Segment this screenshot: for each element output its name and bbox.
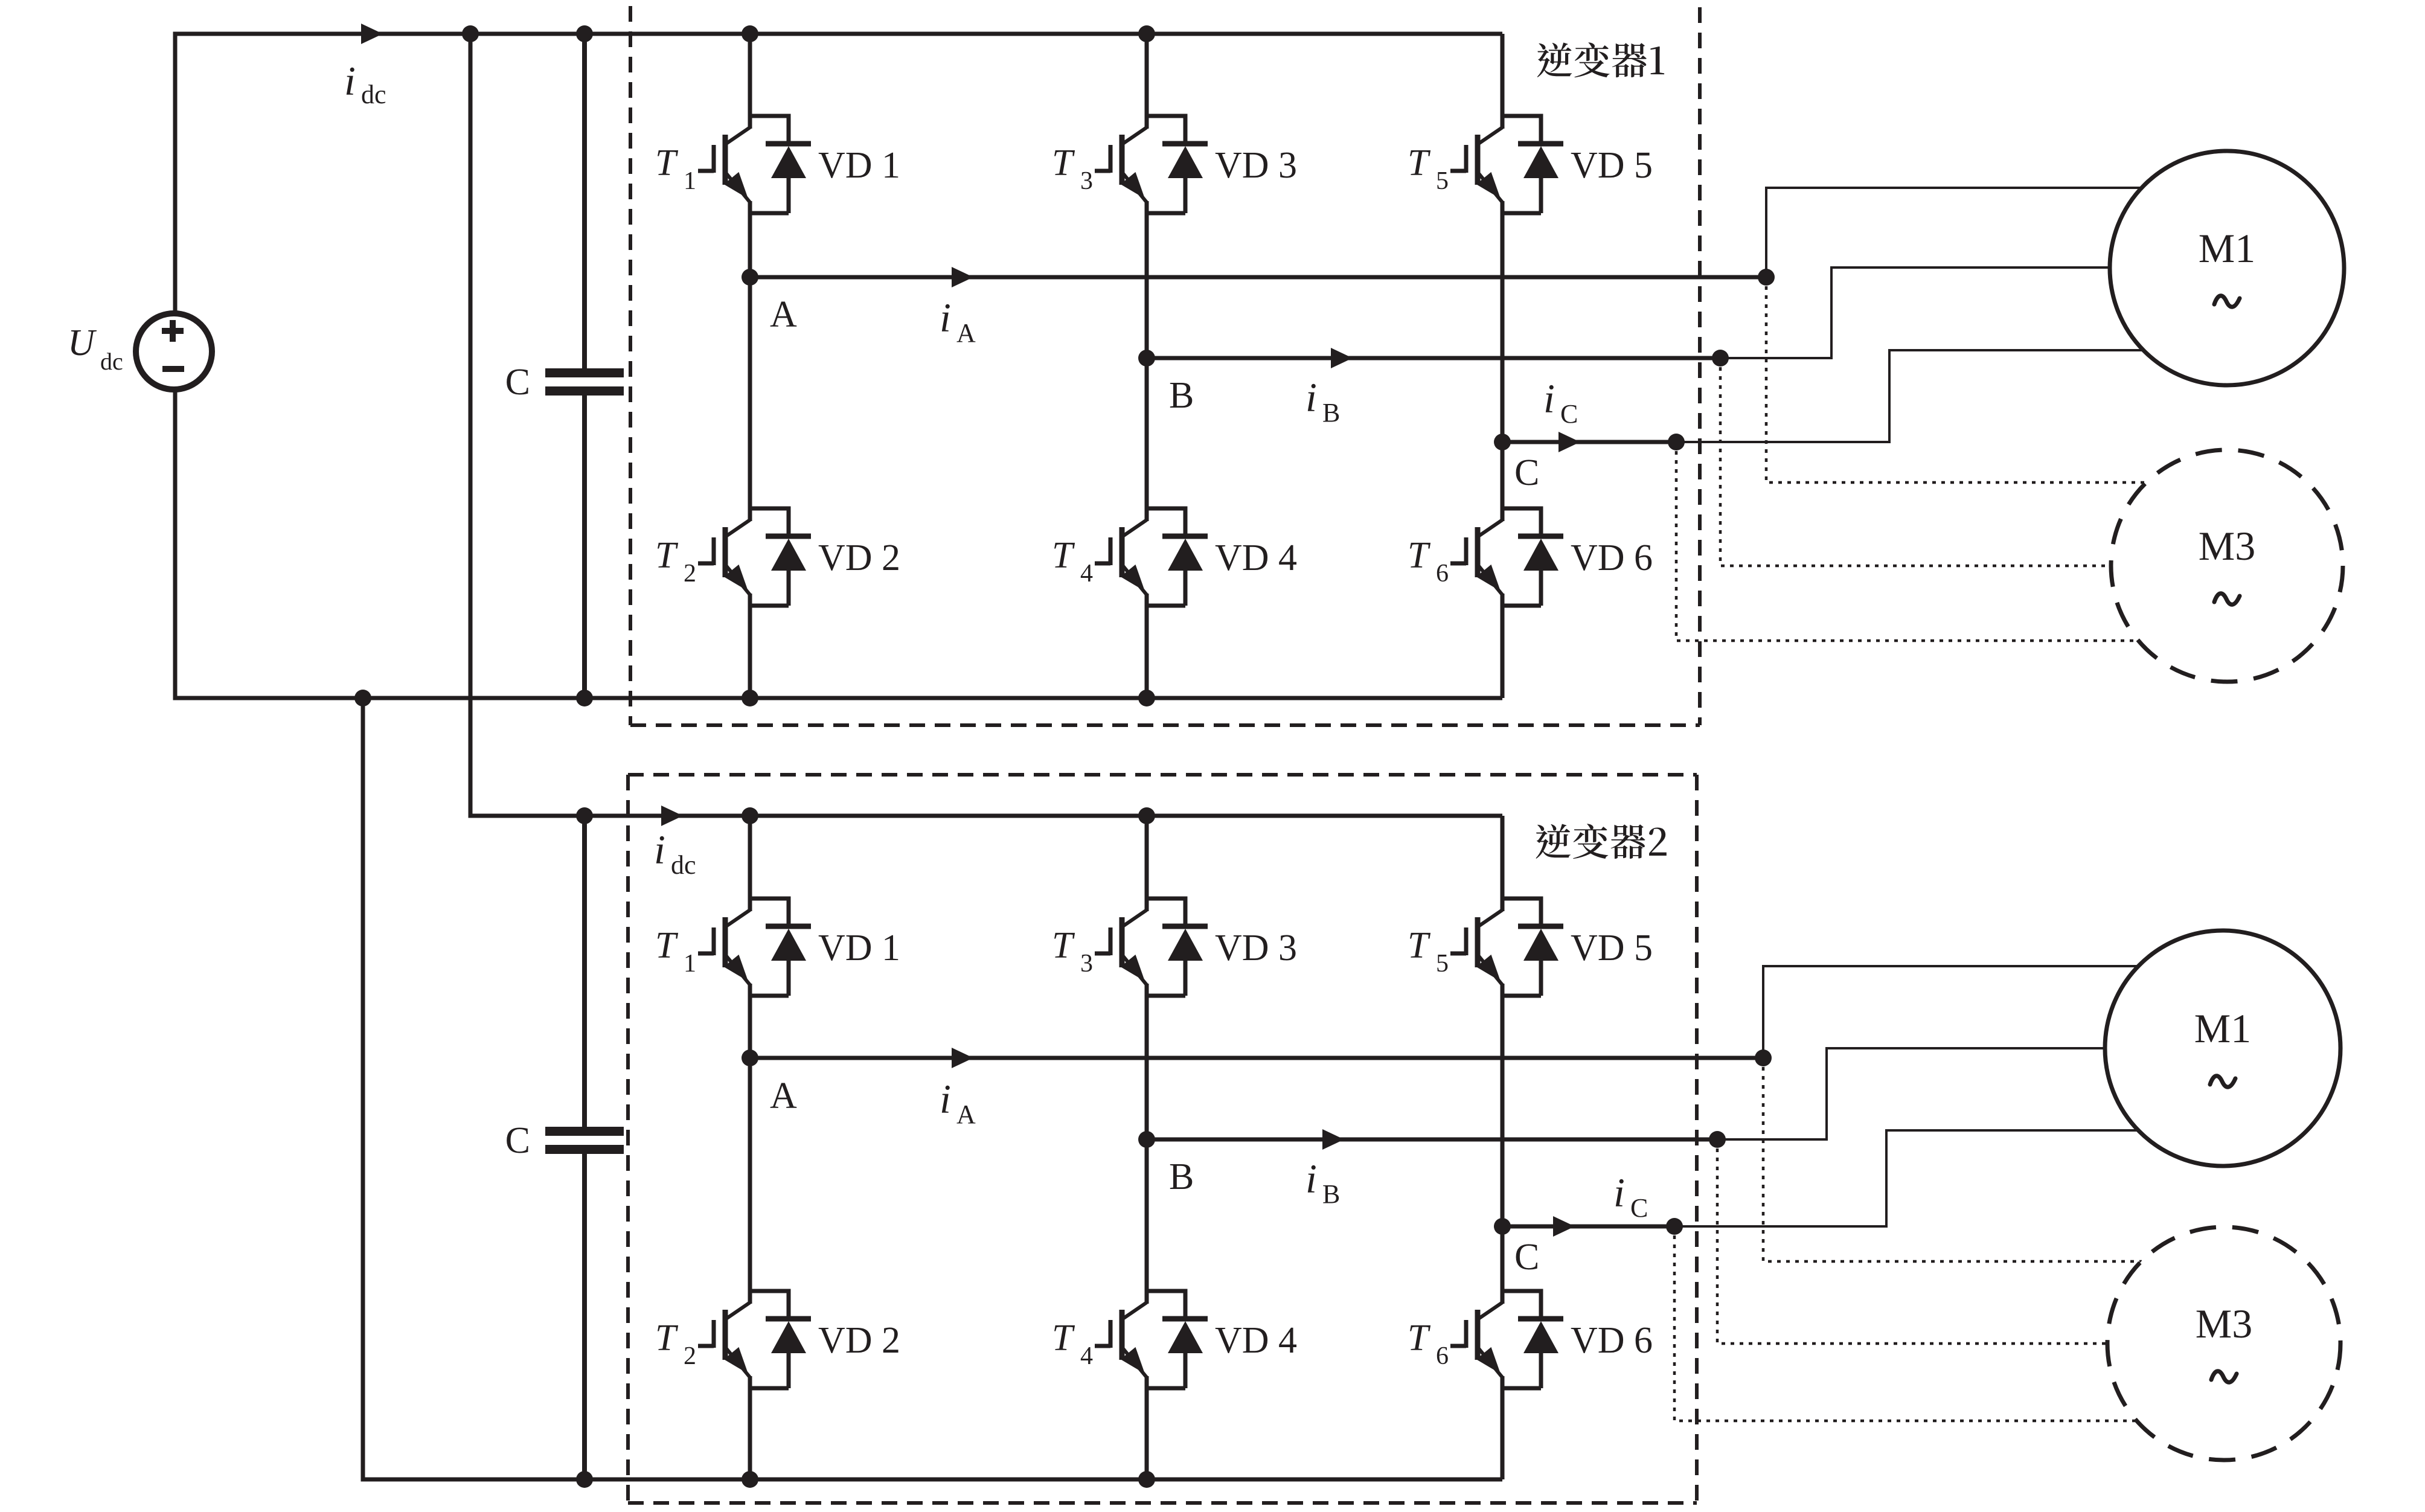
svg-text:4: 4 (1080, 560, 1093, 588)
svg-text:4: 4 (1080, 1342, 1093, 1370)
wire: leg A inverter 2 mid segment (upper emitter to phase node to lower collector) (748, 984, 752, 1304)
transistor T6 label (1408, 1318, 1449, 1370)
node A inverter 2 (742, 1049, 758, 1066)
junction top bus / leg B (1138, 25, 1155, 42)
svg-text:T: T (1052, 143, 1075, 184)
junction rail 1 / leg A (742, 690, 758, 706)
wire: leg A inverter 1 collector segment (748, 34, 752, 129)
transistor T4 (inverter 2) (1095, 1302, 1147, 1377)
wire: phase C output (inverter 2) (1502, 1225, 1674, 1229)
wire: leg A inverter 2 bottom segment (748, 1376, 752, 1479)
transistor T4 (inverter 1) (1095, 520, 1147, 595)
svg-text:6: 6 (1436, 560, 1449, 588)
svg-text:T: T (1408, 1318, 1431, 1359)
diode VD4 (inverter 1) (1147, 508, 1208, 606)
junction rail 2 / leg B (1138, 1471, 1155, 1488)
svg-text:2: 2 (684, 560, 696, 588)
wire: leg A inverter 2 collector segment (748, 816, 752, 911)
svg-text:i: i (1305, 1156, 1317, 1202)
svg-text:VD 4: VD 4 (1215, 537, 1297, 578)
wire: leg C inverter 2 bottom segment (1501, 1376, 1505, 1479)
svg-text:VD 6: VD 6 (1571, 537, 1653, 578)
svg-text:VD 4: VD 4 (1215, 1320, 1297, 1361)
transistor T1 (inverter 1) (698, 127, 750, 202)
arrow i_dc (top bus) (361, 24, 383, 44)
node C tap inverter 1 (1668, 434, 1685, 450)
junction top bus / leg A (742, 25, 758, 42)
wire: dotted link to M3 (phase B inverter 1) (1720, 358, 2111, 566)
svg-text:1: 1 (684, 950, 696, 978)
junction bus 2 / leg A (742, 807, 758, 824)
wire: leg A inverter 1 mid segment (upper emitter to phase node to lower collector) (748, 201, 752, 521)
svg-text:VD 5: VD 5 (1571, 927, 1653, 969)
svg-text:VD 1: VD 1 (818, 145, 900, 186)
arrow i_C (inverter 1) (1558, 432, 1580, 452)
svg-text:i: i (940, 1076, 951, 1122)
wire: feeder to inverter 2 positive bus (470, 34, 1502, 816)
junction rail 1 / capacitor 1 (576, 690, 593, 706)
svg-text:VD 2: VD 2 (818, 1320, 900, 1361)
motor M1 (inverter 1) (2110, 151, 2344, 385)
svg-text:A: A (956, 318, 976, 348)
inverter 1 dashed boundary box (630, 6, 1700, 725)
svg-text:T: T (1052, 535, 1075, 576)
svg-text:T: T (1052, 925, 1075, 966)
svg-text:i: i (344, 58, 356, 104)
i_B label (inverter 1) (1305, 374, 1340, 428)
voltage source U_dc (136, 313, 212, 389)
node A inverter 1 (742, 269, 758, 286)
junction bus 2 / leg B (1138, 807, 1155, 824)
motor M3 (inverter 2) (2107, 1227, 2340, 1460)
i_A label (inverter 2) (940, 1076, 976, 1129)
wire: phase C link to M1 (inverter 1) (1676, 350, 2144, 442)
node A tap inverter 2 (1755, 1049, 1772, 1066)
wire: leg A inverter 1 bottom segment (748, 594, 752, 698)
motor M3 (inverter 1) (2111, 450, 2343, 682)
svg-text:T: T (1408, 143, 1431, 184)
svg-text:B: B (1169, 1156, 1194, 1197)
diode VD1 (inverter 2) (750, 899, 811, 996)
svg-text:T: T (1408, 535, 1431, 576)
transistor T5 label (1408, 143, 1449, 195)
arrow i_B (inverter 1) (1331, 348, 1353, 368)
diode VD2 (inverter 1) (750, 508, 811, 606)
wire: leg B inverter 2 mid segment (upper emitter to phase node to lower collector) (1145, 984, 1149, 1304)
wire: DC source positive lead and top bus (175, 34, 1502, 313)
svg-text:M1: M1 (2199, 225, 2255, 271)
svg-text:M1: M1 (2194, 1005, 2251, 1051)
wire: phase B output (inverter 1) (1147, 356, 1720, 360)
i_B label (inverter 2) (1305, 1156, 1340, 1209)
diode VD5 (inverter 2) (1502, 899, 1563, 996)
wire: phase A link to M1 (inverter 1) (1766, 188, 2142, 277)
svg-text:T: T (655, 925, 679, 966)
svg-text:2: 2 (684, 1342, 696, 1370)
junction top bus / feeder 2 (462, 25, 479, 42)
wire: leg C inverter 2 mid segment (upper emitter to phase node to lower collector) (1501, 984, 1505, 1304)
svg-text:dc: dc (361, 80, 386, 109)
node C inverter 1 (1494, 434, 1511, 450)
diode VD6 (inverter 2) (1502, 1291, 1563, 1388)
inverter 1 label 逆变器1 (1537, 42, 1664, 77)
capacitor C (inverter 2) (545, 816, 624, 1479)
svg-text:VD 3: VD 3 (1215, 927, 1297, 969)
svg-text:1: 1 (684, 167, 696, 195)
junction top bus / capacitor 1 (576, 25, 593, 42)
arrow i_A (inverter 2) (952, 1048, 973, 1068)
diode VD3 (inverter 1) (1147, 116, 1208, 213)
svg-text:U: U (68, 322, 97, 364)
transistor T2 label (655, 1318, 696, 1370)
svg-text:C: C (505, 1120, 530, 1161)
svg-text:B: B (1169, 375, 1194, 416)
wire: DC source negative lead and negative rail (inverter 1) (175, 389, 1502, 698)
svg-text:3: 3 (1080, 950, 1093, 978)
wire: leg C inverter 1 mid segment (upper emitter to phase node to lower collector) (1501, 201, 1505, 521)
i_dc label (inverter 2) (654, 827, 696, 880)
diode VD4 (inverter 2) (1147, 1291, 1208, 1388)
wire: phase C link to M1 (inverter 2) (1674, 1130, 2141, 1226)
transistor T6 (inverter 1) (1450, 520, 1502, 595)
wire: dotted link to M3 (phase A inverter 2) (1763, 1058, 2142, 1261)
transistor T1 (inverter 2) (698, 910, 750, 985)
transistor T2 (inverter 1) (698, 520, 750, 595)
transistor T5 (inverter 1) (1450, 127, 1502, 202)
node B inverter 2 (1138, 1131, 1155, 1148)
wire: dotted link to M3 (phase C inverter 2) (1674, 1226, 2138, 1421)
transistor T5 (inverter 2) (1450, 910, 1502, 985)
svg-text:VD 1: VD 1 (818, 927, 900, 969)
transistor T4 label (1052, 535, 1093, 588)
svg-text:5: 5 (1436, 950, 1449, 978)
node B inverter 1 (1138, 350, 1155, 367)
arrow i_C (inverter 2) (1553, 1216, 1575, 1237)
wire: leg C inverter 2 collector segment (1501, 816, 1505, 911)
wire: dotted link to M3 (phase C inverter 1) (1676, 442, 2138, 641)
wire: leg B inverter 2 bottom segment (1145, 1376, 1149, 1479)
wire: leg B inverter 2 collector segment (1145, 816, 1149, 911)
transistor T2 (inverter 2) (698, 1302, 750, 1377)
transistor T6 label (1408, 535, 1449, 588)
wire: leg C inverter 1 bottom segment (1501, 594, 1505, 698)
diode VD5 (inverter 1) (1502, 116, 1563, 213)
transistor T6 (inverter 2) (1450, 1302, 1502, 1377)
svg-text:A: A (770, 294, 797, 335)
motor M1 (inverter 2) (2105, 931, 2340, 1166)
wire: phase A link to M1 (inverter 2) (1763, 966, 2139, 1058)
svg-text:3: 3 (1080, 167, 1093, 195)
wire: dotted link to M3 (phase B inverter 2) (1717, 1139, 2107, 1344)
inverter 2 label 逆变器2 (1536, 824, 1667, 859)
capacitor C (inverter 1) (545, 34, 624, 698)
arrow i_dc (inverter 2 bus) (661, 806, 683, 826)
transistor T3 label (1052, 925, 1093, 978)
junction rail 1 / feeder neg (354, 690, 371, 706)
transistor T1 label (655, 925, 696, 978)
diode VD6 (inverter 1) (1502, 508, 1563, 606)
svg-text:B: B (1322, 1179, 1340, 1209)
wire: leg B inverter 1 bottom segment (1145, 594, 1149, 698)
svg-text:i: i (654, 827, 665, 873)
i_C label (inverter 1) (1543, 376, 1578, 429)
svg-text:i: i (1613, 1170, 1625, 1216)
svg-text:T: T (655, 535, 679, 576)
svg-text:VD 5: VD 5 (1571, 145, 1653, 186)
svg-text:i: i (940, 295, 951, 341)
svg-text:C: C (505, 362, 530, 403)
svg-text:C: C (1514, 1237, 1539, 1278)
junction bus 2 / capacitor 2 (576, 807, 593, 824)
svg-text:C: C (1560, 399, 1578, 429)
junction rail 1 / leg B (1138, 690, 1155, 706)
wire: dotted link to M3 (phase A inverter 1) (1766, 277, 2146, 482)
svg-text:VD 6: VD 6 (1571, 1320, 1653, 1361)
wire: phase A output (inverter 1) (750, 275, 1766, 280)
transistor T3 (inverter 2) (1095, 910, 1147, 985)
junction rail 2 / capacitor 2 (576, 1471, 593, 1488)
wire: leg C inverter 1 collector segment (1501, 34, 1505, 129)
svg-text:M3: M3 (2196, 1301, 2252, 1347)
svg-text:dc: dc (100, 348, 123, 375)
svg-text:i: i (1305, 374, 1317, 420)
node C inverter 2 (1494, 1218, 1511, 1235)
node C tap inverter 2 (1666, 1218, 1683, 1235)
diode VD2 (inverter 2) (750, 1291, 811, 1388)
transistor T3 label (1052, 143, 1093, 195)
diode VD3 (inverter 2) (1147, 899, 1208, 996)
svg-text:T: T (1408, 925, 1431, 966)
svg-text:i: i (1543, 376, 1555, 421)
svg-text:6: 6 (1436, 1342, 1449, 1370)
svg-text:C: C (1630, 1193, 1648, 1223)
wire: leg B inverter 1 mid segment (upper emitter to phase node to lower collector) (1145, 201, 1149, 521)
U_dc label (68, 322, 123, 375)
transistor T2 label (655, 535, 696, 588)
svg-text:5: 5 (1436, 167, 1449, 195)
svg-text:M3: M3 (2199, 523, 2255, 569)
arrow i_A (inverter 1) (952, 267, 973, 287)
svg-text:VD 3: VD 3 (1215, 145, 1297, 186)
svg-text:T: T (1052, 1318, 1075, 1359)
diode VD1 (inverter 1) (750, 116, 811, 213)
transistor T3 (inverter 1) (1095, 127, 1147, 202)
svg-text:C: C (1514, 452, 1539, 493)
svg-text:T: T (655, 143, 679, 184)
svg-text:dc: dc (671, 850, 696, 880)
transistor T1 label (655, 143, 696, 195)
svg-text:A: A (770, 1075, 797, 1116)
node B tap inverter 1 (1712, 350, 1729, 367)
junction rail 2 / leg A (742, 1471, 758, 1488)
i_A label (inverter 1) (940, 295, 976, 348)
transistor T4 label (1052, 1318, 1093, 1370)
wire: phase B link to M1 (inverter 1) (1720, 267, 2110, 358)
svg-text:B: B (1322, 398, 1340, 428)
wire: leg B inverter 1 collector segment (1145, 34, 1149, 129)
node A tap inverter 1 (1758, 269, 1775, 286)
svg-text:T: T (655, 1318, 679, 1359)
transistor T5 label (1408, 925, 1449, 978)
wire: feeder to inverter 2 negative rail (363, 698, 1502, 1479)
node B tap inverter 2 (1709, 1131, 1726, 1148)
wire: phase C output (inverter 1) (1502, 440, 1676, 444)
i_dc label (top) (344, 58, 386, 109)
wire: phase B link to M1 (inverter 2) (1717, 1048, 2105, 1139)
wire: phase B output (inverter 2) (1147, 1138, 1717, 1142)
svg-text:A: A (956, 1100, 976, 1129)
i_C label (inverter 2) (1613, 1170, 1648, 1223)
svg-text:VD 2: VD 2 (818, 537, 900, 578)
arrow i_B (inverter 2) (1322, 1129, 1344, 1150)
wire: phase A output (inverter 2) (750, 1056, 1763, 1060)
inverter 2 dashed boundary box (628, 775, 1697, 1503)
